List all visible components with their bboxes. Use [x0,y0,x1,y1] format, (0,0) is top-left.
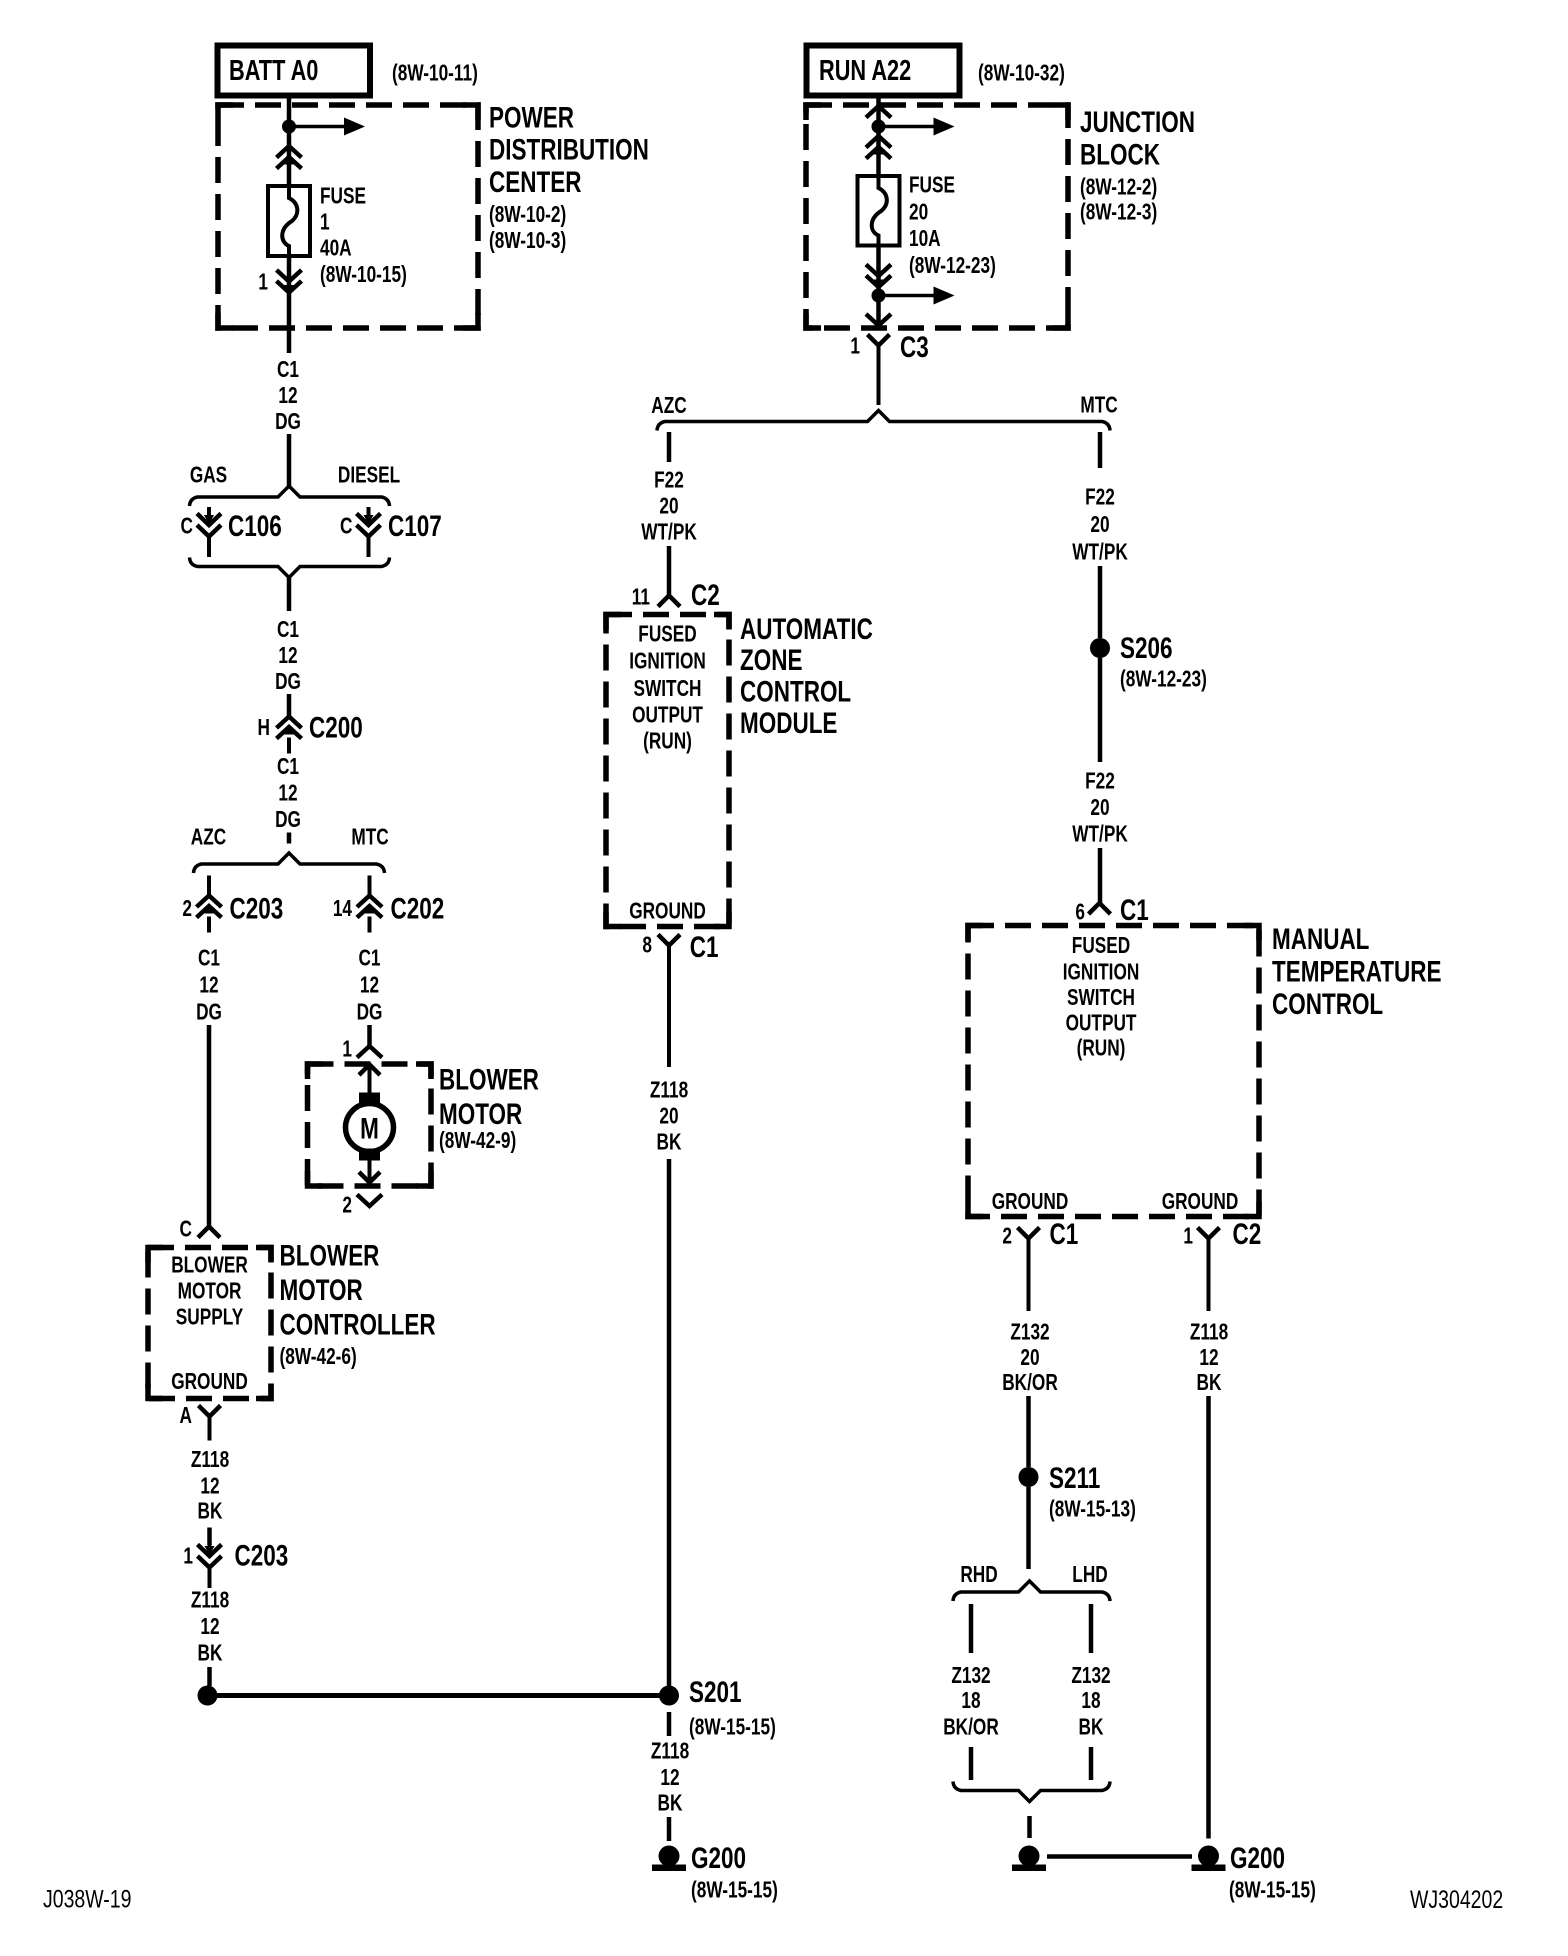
connector chevrons out of fuse 1 [277,270,302,282]
connector C200 [287,697,291,718]
chevron out of blower motor [357,1195,382,1207]
svg-text:C203: C203 [230,891,284,925]
arrow into motor [368,1065,372,1093]
svg-text:12: 12 [660,1766,679,1791]
svg-text:40A: 40A [320,236,352,261]
svg-text:C1: C1 [277,358,299,383]
splice S201 [659,1686,679,1706]
svg-text:RUN A22: RUN A22 [819,55,911,87]
svg-text:Z118: Z118 [651,1739,689,1764]
wire fuse 1 to C1 label [287,256,292,353]
wire AZCM ground to S201 [667,1159,672,1696]
svg-text:10A: 10A [909,227,941,252]
wire to S211 [1026,1396,1031,1467]
svg-text:BATT A0: BATT A0 [229,55,318,87]
svg-text:14: 14 [333,897,353,922]
svg-text:12: 12 [360,973,379,998]
svg-text:C: C [340,514,353,539]
svg-text:POWER: POWER [489,100,574,134]
svg-text:BK: BK [198,1641,223,1666]
svg-text:AZC: AZC [651,394,687,419]
wire LHD branch [1089,1604,1094,1653]
wire to GAS/DIESEL split [287,434,292,487]
ground G200 (left) [1019,1846,1040,1867]
svg-text:FUSE: FUSE [320,184,366,209]
svg-text:(RUN): (RUN) [1077,1036,1126,1061]
svg-text:12: 12 [199,973,218,998]
svg-text:2: 2 [182,897,192,922]
connector C2 (AZCM) [658,596,680,607]
svg-text:C202: C202 [391,891,445,925]
svg-text:AUTOMATIC: AUTOMATIC [740,612,873,646]
svg-text:JUNCTION: JUNCTION [1080,105,1195,139]
connector C203 (bottom) [208,1538,212,1551]
svg-text:12: 12 [278,644,297,669]
dashed wire below S201 [667,1712,672,1736]
svg-text:S211: S211 [1049,1461,1100,1495]
battery feed label box BATT A0 [218,46,371,96]
svg-text:C1: C1 [690,930,719,964]
connector C1 (AZCM) [658,935,680,946]
svg-text:C: C [181,514,194,539]
svg-text:Z132: Z132 [951,1664,990,1689]
split brace GAS/DIESEL [190,486,390,506]
svg-text:(8W-10-3): (8W-10-3) [489,229,566,254]
arrow out of motor [368,1161,372,1183]
wire fuse 20 to junction block bottom [876,246,881,326]
svg-text:F22: F22 [1085,769,1115,794]
svg-text:C: C [180,1217,193,1242]
svg-text:C1: C1 [1050,1217,1079,1251]
svg-text:C1: C1 [277,755,299,780]
svg-text:GAS: GAS [190,463,227,488]
wire to C203 bottom [207,1528,212,1546]
wire C203 to blower motor controller [207,1025,212,1227]
svg-text:F22: F22 [654,468,684,493]
svg-text:20: 20 [1090,513,1109,538]
power distribution center box [218,105,478,328]
svg-text:BK: BK [657,1130,682,1155]
svg-text:2: 2 [342,1193,352,1218]
svg-text:CENTER: CENTER [489,165,581,199]
svg-text:DG: DG [357,1000,383,1025]
svg-text:20: 20 [1090,796,1109,821]
svg-text:ZONE: ZONE [740,643,802,677]
svg-text:20: 20 [909,200,928,225]
svg-text:C1: C1 [277,618,299,643]
dashed wire to G200 (middle) [667,1817,672,1841]
svg-text:G200: G200 [691,1841,746,1875]
svg-text:BLOWER: BLOWER [171,1253,248,1278]
svg-text:MOTOR: MOTOR [439,1097,522,1131]
svg-text:C106: C106 [228,509,282,543]
svg-text:20: 20 [659,494,678,519]
svg-text:MTC: MTC [351,825,389,850]
split brace RHD/LHD [953,1581,1110,1601]
svg-text:FUSED: FUSED [638,622,696,647]
wire merge to C1 label [287,578,292,612]
svg-text:C203: C203 [235,1538,289,1572]
ground G200 (right) [1198,1846,1219,1867]
svg-text:Z118: Z118 [191,1448,229,1473]
svg-text:1: 1 [1183,1224,1193,1249]
motor brush (bottom) [359,1149,380,1161]
wire LHD to merge [1089,1747,1094,1780]
svg-text:C1: C1 [198,946,220,971]
svg-text:18: 18 [1081,1689,1100,1714]
wire S211 to RHD/LHD split [1026,1487,1031,1569]
svg-text:C2: C2 [691,578,720,612]
svg-text:(8W-12-2): (8W-12-2) [1080,175,1157,200]
node splice (left) [198,1686,218,1706]
svg-text:C3: C3 [900,330,929,364]
svg-text:IGNITION: IGNITION [1063,960,1140,985]
svg-text:GROUND: GROUND [1162,1190,1239,1215]
wire merge to ground [1027,1816,1032,1838]
svg-text:(8W-10-2): (8W-10-2) [489,203,566,228]
svg-text:DG: DG [275,410,301,435]
junction block box [806,105,1068,328]
svg-text:BK: BK [658,1791,683,1816]
svg-text:Z132: Z132 [1071,1664,1110,1689]
wire BATT A0 to fuse 1 [287,96,292,187]
split brace AZC/MTC [194,853,385,873]
svg-text:A: A [180,1404,193,1429]
svg-text:8: 8 [642,933,652,958]
svg-text:FUSE: FUSE [909,173,955,198]
svg-text:(8W-15-15): (8W-15-15) [689,1715,776,1740]
connector C202 [368,876,372,897]
svg-text:CONTROLLER: CONTROLLER [280,1307,436,1341]
splice S211 [1019,1467,1039,1487]
ground G200 (middle) [659,1846,680,1867]
svg-text:J038W-19: J038W-19 [43,1885,131,1913]
wire to S206 [1098,566,1103,638]
svg-text:AZC: AZC [191,825,227,850]
svg-text:(8W-42-6): (8W-42-6) [280,1345,357,1370]
svg-text:(8W-15-15): (8W-15-15) [691,1878,778,1903]
svg-text:RHD: RHD [960,1563,997,1588]
svg-text:Z118: Z118 [191,1588,229,1613]
wire S206 down [1098,658,1103,762]
svg-text:(8W-10-32): (8W-10-32) [978,61,1065,86]
connector chevrons into fuse 1 [277,146,302,158]
node splice above fuse 20 [872,120,886,134]
svg-text:C1: C1 [1120,893,1149,927]
svg-text:Z118: Z118 [650,1078,688,1103]
svg-text:MODULE: MODULE [740,706,837,740]
svg-text:LHD: LHD [1072,1563,1107,1588]
svg-text:12: 12 [1199,1346,1218,1371]
wire to C1 (MTC) [1098,848,1103,903]
connector C2 (MTC ground) [1198,1228,1220,1239]
node splice in PDC [282,120,296,134]
svg-text:MTC: MTC [1080,393,1118,418]
ignition feed label box RUN A22 [807,46,960,96]
chevron at junction block bottom [866,314,891,326]
merge brace below C106/C107 [190,558,390,578]
wire MTC branch [1098,432,1103,468]
wire RHD to merge [969,1747,974,1780]
motor M1 blower [346,1104,394,1152]
connector A out of controller [199,1406,221,1417]
svg-text:S206: S206 [1120,631,1173,665]
svg-text:1: 1 [258,270,268,295]
svg-text:DG: DG [196,1000,222,1025]
svg-text:(RUN): (RUN) [643,729,692,754]
splice S206 [1090,638,1110,658]
connector C1 (MTC ground) [1018,1228,1040,1239]
wire between grounds [1047,1854,1192,1859]
svg-text:C2: C2 [1233,1217,1262,1251]
svg-text:BK/OR: BK/OR [1002,1371,1058,1396]
svg-text:(8W-42-9): (8W-42-9) [439,1129,516,1154]
wire splice to S201 [208,1693,670,1698]
svg-text:WJ304202: WJ304202 [1410,1886,1503,1914]
svg-text:GROUND: GROUND [171,1370,248,1395]
svg-text:Z132: Z132 [1010,1320,1049,1345]
connector chevrons out of fuse 20 [866,265,891,277]
svg-text:1: 1 [850,334,860,359]
wire to blower motor [367,1025,372,1046]
svg-text:1: 1 [320,210,330,235]
svg-text:BK/OR: BK/OR [943,1715,999,1740]
svg-text:MOTOR: MOTOR [178,1279,242,1304]
svg-text:MOTOR: MOTOR [280,1273,363,1307]
svg-text:SWITCH: SWITCH [634,677,702,702]
wire AZC branch [667,432,672,462]
arrow to other circuits (junction bottom) [879,294,934,298]
dashed wire to AZC/MTC split [287,833,292,844]
manual temperature control box [968,926,1259,1217]
svg-text:(8W-12-3): (8W-12-3) [1080,200,1157,225]
connector C3 [868,335,890,346]
svg-text:WT/PK: WT/PK [1072,822,1128,847]
connector C107 [367,507,371,520]
blower motor box [308,1064,432,1186]
svg-text:TEMPERATURE: TEMPERATURE [1272,954,1441,988]
svg-text:12: 12 [278,384,297,409]
fuse F1 40A [268,186,310,256]
svg-text:CONTROL: CONTROL [740,674,851,708]
svg-text:BLOCK: BLOCK [1080,137,1160,171]
wire RHD branch [969,1604,974,1653]
svg-text:GROUND: GROUND [629,899,706,924]
svg-text:FUSED: FUSED [1072,934,1130,959]
split brace AZC/MTC (C3) [657,411,1110,431]
svg-text:DG: DG [275,808,301,833]
svg-text:(8W-12-23): (8W-12-23) [1120,667,1207,692]
arrow to other circuits (junction top) [879,125,934,129]
svg-text:(8W-15-15): (8W-15-15) [1229,1878,1316,1903]
svg-text:BK: BK [1079,1715,1104,1740]
svg-text:6: 6 [1075,900,1085,925]
chevron at junction block top [866,106,891,118]
svg-text:12: 12 [200,1474,219,1499]
svg-text:IGNITION: IGNITION [629,649,706,674]
svg-text:12: 12 [278,781,297,806]
blower motor controller box [148,1248,271,1399]
svg-text:(8W-10-15): (8W-10-15) [320,263,407,288]
wire RUN A22 through junction block [876,96,881,177]
svg-text:G200: G200 [1230,1841,1285,1875]
node splice below fuse 20 [872,289,886,303]
svg-text:MANUAL: MANUAL [1272,922,1369,956]
fuse F20 10A [858,176,900,246]
svg-text:SWITCH: SWITCH [1067,986,1135,1011]
svg-text:(8W-10-11): (8W-10-11) [392,61,478,86]
svg-text:BLOWER: BLOWER [280,1238,380,1272]
chevron into blower motor [357,1046,382,1058]
svg-text:WT/PK: WT/PK [641,520,697,545]
connector into controller [198,1227,220,1238]
dashed wire to ground splice [207,1667,212,1686]
svg-text:GROUND: GROUND [992,1190,1069,1215]
svg-text:BLOWER: BLOWER [439,1062,539,1096]
svg-text:C200: C200 [309,710,363,744]
svg-text:BK: BK [198,1499,223,1524]
svg-text:Z118: Z118 [1190,1320,1228,1345]
svg-text:2: 2 [1002,1224,1012,1249]
connector C203 (top) [207,876,211,897]
svg-text:20: 20 [1020,1346,1039,1371]
connector C106 [207,507,211,520]
svg-text:20: 20 [659,1104,678,1129]
svg-text:SUPPLY: SUPPLY [176,1305,244,1330]
svg-text:C107: C107 [388,509,442,543]
svg-text:(8W-12-23): (8W-12-23) [909,254,996,279]
connector chevrons into fuse 20 [866,136,891,148]
svg-text:BK: BK [1197,1371,1222,1396]
svg-text:OUTPUT: OUTPUT [1066,1011,1137,1036]
connector C1 (MTC) [1089,903,1111,914]
svg-text:DISTRIBUTION: DISTRIBUTION [489,133,649,167]
svg-text:DIESEL: DIESEL [338,463,400,488]
automatic zone control module box [606,615,729,927]
svg-text:11: 11 [632,585,650,610]
svg-text:M: M [360,1111,379,1145]
svg-text:CONTROL: CONTROL [1272,987,1383,1021]
wire to C200 [287,694,292,717]
svg-text:1: 1 [183,1544,193,1569]
svg-text:1: 1 [342,1037,352,1062]
wire MTC C2 to ground [1206,1396,1211,1839]
svg-text:C1: C1 [358,946,380,971]
svg-text:OUTPUT: OUTPUT [632,703,703,728]
svg-text:DG: DG [275,670,301,695]
wire to C2 [667,546,672,596]
svg-text:WT/PK: WT/PK [1072,540,1128,565]
svg-text:F22: F22 [1085,485,1115,510]
svg-text:H: H [258,716,270,741]
svg-text:12: 12 [200,1615,219,1640]
svg-text:(8W-15-13): (8W-15-13) [1049,1497,1136,1522]
arrow to other circuits (PDC) [289,125,344,129]
motor brush (top) [359,1093,380,1105]
svg-text:S201: S201 [689,1675,742,1709]
merge brace RHD/LHD [953,1782,1110,1802]
svg-text:18: 18 [961,1689,980,1714]
